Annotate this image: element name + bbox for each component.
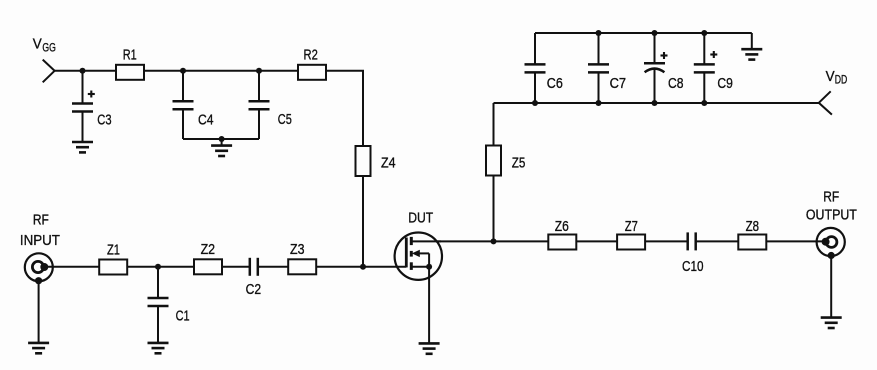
transistor DUT bulk arrow line xyxy=(417,252,429,254)
junction node C8 top xyxy=(652,30,658,36)
svg-text:OUTPUT: OUTPUT xyxy=(806,207,857,224)
capacitor C7 xyxy=(588,64,609,72)
capacitor C4 lead xyxy=(182,71,184,101)
transistor DUT channel segment mid xyxy=(410,251,413,257)
wire C3 to ground xyxy=(82,112,84,143)
connector RF output ground dot xyxy=(828,252,835,259)
capacitor C8 top lead xyxy=(654,33,656,63)
junction node C5 tap xyxy=(256,68,262,74)
junction node C1 tap xyxy=(155,264,161,270)
svg-text:C8: C8 xyxy=(668,75,684,92)
wire C2 to Z3 xyxy=(258,266,289,268)
transistor DUT channel segment top xyxy=(410,237,413,245)
ground below DUT xyxy=(419,343,440,353)
capacitor C9 xyxy=(694,64,715,72)
wire Z8 to output connector xyxy=(766,240,826,242)
wire R1 to R2 with C4 C5 taps xyxy=(144,70,298,72)
svg-text:C7: C7 xyxy=(610,75,627,92)
junction node ground stub xyxy=(219,136,225,142)
wire C9 to VDD rail xyxy=(703,72,705,103)
svg-text:C10: C10 xyxy=(682,258,704,275)
wire C4-C5 ground bus xyxy=(183,138,259,140)
capacitor C1 xyxy=(148,298,169,306)
wire Z5 to drain rail xyxy=(493,176,495,242)
resistor R2 xyxy=(298,65,326,80)
ground below C3 xyxy=(72,142,93,152)
capacitor C6 xyxy=(525,64,546,72)
polarity plus of C3 xyxy=(88,91,95,98)
connector RF output outer xyxy=(817,228,845,256)
svg-text:Z1: Z1 xyxy=(107,242,120,259)
junction node drain rail Z5 xyxy=(491,238,497,244)
svg-text:C5: C5 xyxy=(278,111,292,128)
svg-text:Z7: Z7 xyxy=(625,218,638,235)
transistor DUT channel segment bottom xyxy=(410,262,413,270)
capacitor C9 top lead xyxy=(703,33,705,64)
wire C1 to ground xyxy=(157,306,159,343)
connector RF input ground dot xyxy=(35,277,42,284)
wire output connector shield to ground xyxy=(830,256,832,318)
svg-text:C4: C4 xyxy=(198,111,214,128)
wire DUT source to ground xyxy=(428,267,430,344)
svg-text:V: V xyxy=(33,36,42,53)
transistor DUT gate bar xyxy=(405,238,408,268)
junction node C8 bottom xyxy=(652,100,658,106)
transistor DUT drain lead xyxy=(411,240,441,242)
transistor DUT body circle xyxy=(395,233,442,280)
impedance Z4 xyxy=(356,146,371,176)
junction node C7 top xyxy=(596,30,602,36)
capacitor C7 top lead xyxy=(598,33,600,64)
wire rail to top ground xyxy=(751,33,753,49)
wire C8 to VDD rail xyxy=(654,68,656,103)
wire C10 to Z8 xyxy=(696,240,739,242)
wire Z2 to C2 xyxy=(222,266,250,268)
junction node Z4 tap xyxy=(360,264,366,270)
connector RF input outer xyxy=(25,253,53,281)
impedance Z8 xyxy=(738,235,766,250)
capacitor C5 lead xyxy=(258,71,260,101)
ground top right xyxy=(741,49,762,59)
wire C5 bottom xyxy=(258,109,260,139)
impedance Z6 xyxy=(548,235,576,250)
svg-text:Z3: Z3 xyxy=(290,241,305,258)
capacitor C6 top lead xyxy=(534,33,536,64)
svg-text:RF: RF xyxy=(823,188,839,205)
capacitor C5 xyxy=(249,101,270,109)
wire input connector shield to ground xyxy=(38,281,40,343)
junction node C3 tap xyxy=(80,68,86,74)
capacitor C8 polarized xyxy=(644,63,665,72)
svg-text:R2: R2 xyxy=(304,47,318,64)
capacitor C3 lead xyxy=(82,71,84,104)
ground below C1 xyxy=(148,343,169,353)
wire C4 bottom xyxy=(182,109,184,139)
ground below input connector xyxy=(28,343,49,353)
junction node C4 tap xyxy=(180,68,186,74)
impedance Z1 xyxy=(99,260,127,275)
svg-text:C1: C1 xyxy=(176,308,190,325)
impedance Z3 xyxy=(288,259,316,274)
svg-text:INPUT: INPUT xyxy=(20,232,60,249)
svg-text:Z5: Z5 xyxy=(512,154,526,171)
wire input connector to Z1 xyxy=(44,266,100,268)
wire Z3 to DUT gate xyxy=(316,266,406,268)
wire decoupling top rail xyxy=(535,32,752,34)
connector RF output pin xyxy=(826,237,837,248)
impedance Z2 xyxy=(194,259,222,274)
wire Z4 to input rail xyxy=(362,176,364,267)
transistor DUT bulk arrowhead xyxy=(412,250,420,257)
svg-text:V: V xyxy=(826,68,835,85)
wire VGG arrow to node xyxy=(55,70,83,72)
impedance Z7 xyxy=(617,235,645,250)
svg-text:Z8: Z8 xyxy=(746,218,759,235)
wire VDD rail to Z5 xyxy=(493,103,495,146)
svg-text:R1: R1 xyxy=(123,47,137,64)
svg-text:GG: GG xyxy=(42,41,56,55)
svg-text:C6: C6 xyxy=(547,75,563,92)
capacitor C2 series xyxy=(250,258,258,276)
connector RF input contact dot xyxy=(40,263,48,271)
wire C7 to VDD rail xyxy=(598,72,600,103)
capacitor C10 series xyxy=(688,232,696,250)
transistor DUT bulk to source xyxy=(428,253,430,266)
resistor R1 xyxy=(116,65,144,80)
polarity plus of C9 xyxy=(710,51,717,58)
junction node C6 bottom xyxy=(532,100,538,106)
junction node DUT source xyxy=(426,264,432,270)
capacitor C4 xyxy=(173,101,194,109)
capacitor C1 lead xyxy=(157,267,159,298)
connector arrow VDD input xyxy=(819,91,832,114)
wire Z1 to Z2 with C1 tap xyxy=(127,266,194,268)
connector RF output contact dot xyxy=(822,238,830,246)
svg-text:DD: DD xyxy=(835,72,848,86)
wire R2 to Z4 corner xyxy=(326,71,363,146)
transistor DUT source lead xyxy=(411,266,429,268)
svg-text:C2: C2 xyxy=(246,281,262,298)
wire C6 to VDD rail xyxy=(534,72,536,103)
wire VDD rail xyxy=(494,102,819,104)
wire Z6 to Z7 xyxy=(576,240,617,242)
wire drain rail xyxy=(436,240,548,242)
svg-text:Z2: Z2 xyxy=(201,241,216,258)
ground below output connector xyxy=(821,318,842,328)
svg-text:C3: C3 xyxy=(97,111,111,128)
svg-text:C9: C9 xyxy=(717,75,733,92)
wire stub to ground xyxy=(221,139,223,146)
wire node to R1 xyxy=(83,70,117,72)
impedance Z5 xyxy=(486,146,501,176)
svg-text:Z4: Z4 xyxy=(381,154,396,171)
wire Z7 to C10 xyxy=(645,240,688,242)
ground below C4 C5 xyxy=(211,146,232,156)
polarity plus of C8 xyxy=(661,52,668,59)
connector RF input pin xyxy=(32,261,43,272)
connector arrow VGG input xyxy=(43,60,55,83)
svg-text:RF: RF xyxy=(33,211,49,228)
svg-text:DUT: DUT xyxy=(408,210,433,227)
svg-text:Z6: Z6 xyxy=(555,218,569,235)
capacitor C3 xyxy=(72,104,93,112)
junction node C9 top xyxy=(701,30,707,36)
junction node C9 bottom xyxy=(701,100,707,106)
junction node C7 bottom xyxy=(596,100,602,106)
